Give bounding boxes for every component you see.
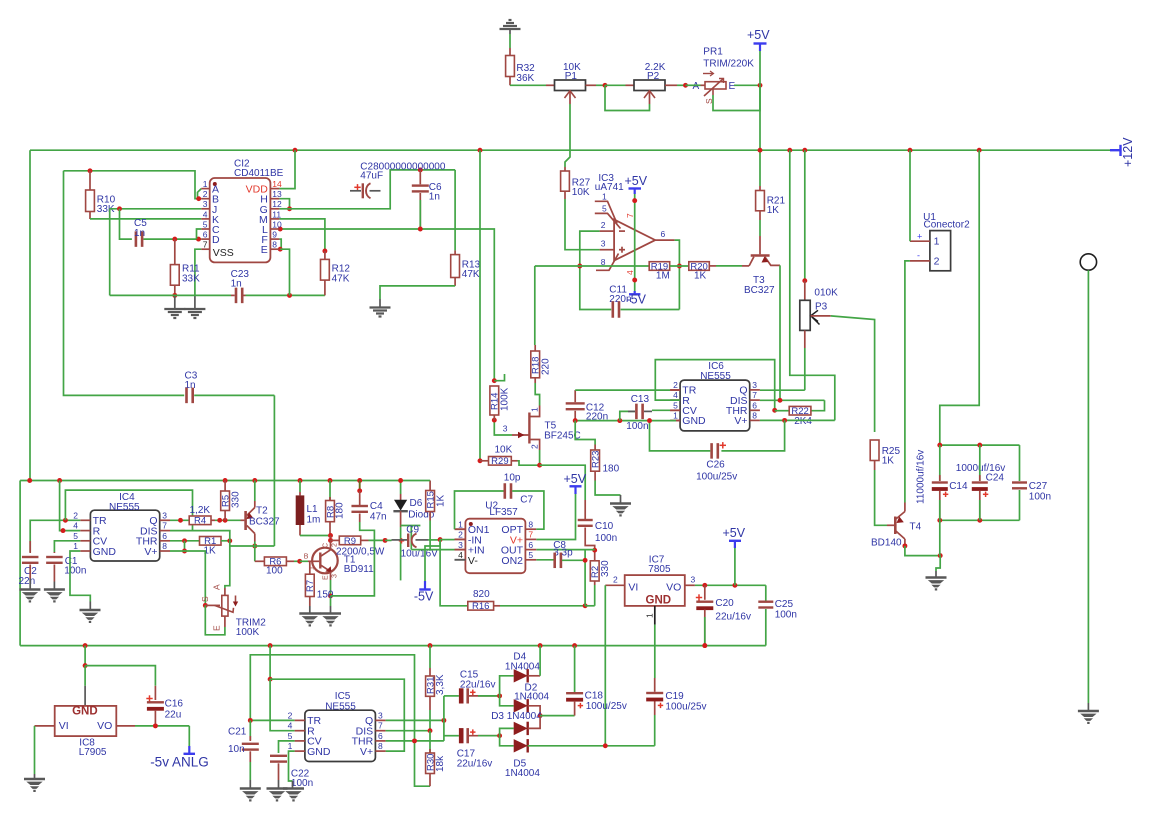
wire +5V to pin 7 [634, 194, 636, 291]
wire R32 to P1 [509, 77, 511, 86]
svg-text:L7905: L7905 [79, 747, 107, 758]
svg-text:E: E [212, 625, 222, 631]
svg-text:+5V: +5V [723, 526, 746, 540]
svg-text:180: 180 [335, 502, 346, 519]
wire C9 to U2 -IN [428, 539, 440, 541]
wire R29 to T5 source node [511, 460, 517, 462]
svg-text:1N4004: 1N4004 [514, 692, 549, 703]
svg-text:V-: V- [468, 555, 478, 567]
svg-text:100u/25v: 100u/25v [696, 472, 737, 483]
svg-text:820: 820 [473, 589, 490, 600]
svg-text:2: 2 [601, 220, 606, 230]
IC5 pin 3 Q [375, 719, 385, 721]
resistor R11 [174, 239, 176, 265]
svg-text:2: 2 [530, 444, 540, 449]
CI2 pin 13 [270, 198, 279, 200]
potentiometer P2 [634, 80, 665, 91]
node T5 source/R29 [537, 463, 542, 468]
node C6 top [418, 167, 423, 172]
resistor R31 [429, 646, 431, 668]
capacitor C7 loop [455, 491, 504, 529]
wire left column to C3 [64, 171, 185, 396]
wire IC5 Q line [386, 719, 444, 721]
svg-text:3: 3 [378, 710, 383, 720]
capacitor C19 [654, 715, 656, 746]
IC3 pin 5 stub [595, 213, 621, 228]
node THR [772, 408, 777, 413]
node -IN [438, 537, 443, 542]
svg-text:1K: 1K [694, 271, 707, 282]
wire Q riser to C15/C17 [443, 696, 445, 741]
svg-text:5: 5 [602, 204, 607, 214]
resistor R13 [454, 170, 456, 251]
svg-text:1: 1 [673, 410, 678, 420]
svg-text:D: D [212, 234, 220, 246]
wire +IN line [411, 549, 454, 551]
ground (IC5) [283, 787, 304, 790]
wire DIS loop [65, 490, 192, 530]
power -5V (IC3 pin4) [629, 293, 640, 295]
svg-text:C27: C27 [1029, 481, 1048, 492]
svg-text:220: 220 [540, 358, 551, 375]
svg-text:3: 3 [458, 540, 463, 550]
svg-text:R7: R7 [305, 580, 316, 592]
svg-text:R9: R9 [344, 536, 356, 547]
svg-text:7805: 7805 [648, 564, 671, 575]
wire -IN to -5V stem [425, 540, 440, 581]
wire IC5 GND to ground [289, 751, 295, 781]
wire C11 feedback loop [580, 231, 611, 309]
svg-text:LF357: LF357 [489, 507, 518, 518]
svg-text:5: 5 [288, 731, 293, 741]
svg-text:V+: V+ [360, 746, 373, 758]
node L1/R8 [328, 533, 333, 538]
wire pin8 down [280, 249, 289, 295]
bus junction dots [293, 148, 298, 153]
wire to P2 [605, 84, 626, 86]
IC5 pin 8 V+ [375, 750, 385, 752]
svg-text:C7: C7 [520, 495, 533, 506]
IC4 pin 3 Q [160, 519, 170, 521]
svg-text:GND: GND [307, 746, 331, 758]
node +5V/E junction [758, 83, 763, 88]
CI2 pin1 jog [198, 189, 202, 199]
svg-text:1: 1 [934, 236, 940, 248]
node R6/T1 base [297, 559, 302, 564]
IC4 pin 4 R [80, 530, 90, 532]
wire IC5 TR net loop [250, 655, 430, 786]
svg-text:4: 4 [73, 521, 78, 531]
wire C12 to IC6 TR [575, 389, 670, 391]
svg-text:C13: C13 [631, 394, 650, 405]
node R14 bottom [492, 418, 497, 423]
svg-text:Conector2: Conector2 [924, 220, 971, 231]
svg-text:1N4004: 1N4004 [505, 661, 540, 672]
svg-text:2: 2 [934, 255, 940, 267]
ground (T1) [320, 612, 341, 615]
IC4 NE555 [90, 510, 159, 561]
svg-text:L1: L1 [307, 504, 319, 515]
svg-text:3: 3 [203, 199, 208, 209]
wire R13 to ground [454, 278, 456, 286]
wire D4 cathode to rail [539, 646, 541, 676]
capacitor C10 [578, 519, 593, 521]
capacitor C1 [53, 552, 55, 553]
svg-text:4: 4 [625, 270, 635, 275]
U1 pin 2 [910, 260, 930, 262]
svg-text:150: 150 [317, 590, 334, 601]
resistor R30 [429, 731, 431, 753]
node R9 right [383, 538, 388, 543]
IC6 pin 4 R [670, 399, 680, 401]
inductor L1 [299, 481, 301, 493]
IC5 pin 1 GND [295, 750, 305, 752]
IC7 pin 2 VI [605, 584, 624, 586]
wire VI riser to D5 row [604, 585, 606, 746]
svg-text:ON2: ON2 [501, 555, 523, 567]
svg-text:T2: T2 [256, 506, 268, 517]
ground (R11) [164, 308, 185, 310]
svg-text:220n: 220n [586, 412, 608, 423]
svg-text:2: 2 [288, 710, 293, 720]
wire IC5 DIS line [386, 730, 430, 732]
capacitor C5 [135, 231, 138, 247]
capacitor C2 [29, 541, 31, 553]
trimmer PR1 [686, 84, 701, 86]
diode D6 [400, 481, 402, 495]
IC8 L7905 [55, 706, 117, 736]
CI2 pin 4 [201, 218, 209, 220]
svg-text:100K: 100K [500, 387, 511, 411]
svg-text:22u/16v: 22u/16v [457, 759, 493, 770]
node D5/IC7 VI [603, 743, 608, 748]
svg-text:2200/0,5W: 2200/0,5W [336, 547, 385, 558]
CI2 pin 7 [201, 248, 209, 250]
wire C12 node to R23 [575, 421, 595, 445]
IC5 pin 6 THR [375, 740, 385, 742]
svg-text:A: A [693, 81, 700, 92]
bottom +12V rail [20, 645, 766, 647]
U2 pin 5 ON2 [525, 559, 536, 561]
svg-text:3: 3 [332, 574, 339, 578]
svg-text:3: 3 [752, 380, 757, 390]
svg-text:100u/25v: 100u/25v [665, 702, 706, 713]
resistor R1 [200, 537, 222, 546]
node IC5 R riser [268, 677, 273, 682]
wire T2 collector to rail [254, 481, 256, 502]
resistor R8 [329, 481, 331, 501]
capacitor C12 [574, 390, 576, 402]
resistor R32 [506, 56, 515, 77]
wire R1 right riser [193, 531, 230, 541]
wire bus to C14 rail [940, 150, 979, 445]
wire P1 wiper to R27 [565, 104, 570, 167]
ground (CI2 pin7) [184, 308, 205, 310]
svg-text:GND: GND [93, 546, 117, 558]
wire P3 wiper to R25 [831, 316, 875, 432]
svg-text:1K: 1K [767, 205, 780, 216]
resistor R18 [534, 345, 536, 351]
node C26 riser [782, 418, 787, 423]
wire bus to IC6 V+ loop [790, 150, 835, 420]
svg-text:C25: C25 [775, 599, 794, 610]
svg-text:100n: 100n [595, 533, 617, 544]
wire OUT line [536, 549, 594, 551]
IC3 pin 6 output [655, 239, 674, 241]
CI2 pin 1 [201, 188, 209, 190]
svg-text:PR1: PR1 [703, 47, 723, 58]
wire IC8 VO line [116, 725, 135, 727]
svg-text:2: 2 [458, 530, 463, 540]
transistor T1 BD911 [312, 548, 338, 574]
svg-text:4: 4 [458, 550, 463, 560]
wire IC8 VI to ground [35, 725, 55, 727]
IC3 pin 8 stub [596, 254, 619, 271]
svg-text:3: 3 [162, 510, 167, 520]
svg-text:D6: D6 [410, 498, 423, 509]
node T4/C14 ground [938, 553, 943, 558]
svg-text:8: 8 [272, 240, 277, 250]
svg-text:8: 8 [752, 410, 757, 420]
node C23/pin8 [287, 293, 292, 298]
svg-text:1: 1 [602, 192, 607, 202]
capacitor C22 [270, 755, 287, 757]
capacitor C21 [249, 720, 251, 740]
resistor R23 [594, 445, 596, 451]
wire rail to IC4 R pin [60, 481, 81, 531]
ground (C22) [267, 787, 288, 790]
node TR/C21 [248, 718, 253, 723]
svg-text:VSS: VSS [213, 247, 234, 259]
node T1 emitter [328, 593, 333, 598]
node junction P1/P2 [603, 83, 608, 88]
svg-text:100K: 100K [236, 627, 260, 638]
VSS rail wire [110, 294, 231, 296]
node R10 top [88, 168, 93, 173]
svg-text:100n: 100n [626, 421, 648, 432]
svg-text:uA741: uA741 [595, 182, 624, 193]
wire to CI2 pins 1/2 [64, 171, 202, 199]
svg-text:6: 6 [661, 229, 666, 239]
node T2 emitter [252, 544, 257, 549]
svg-text:4: 4 [673, 390, 678, 400]
wire -IN to R16 rail [440, 540, 468, 606]
svg-text:NE555: NE555 [325, 702, 356, 713]
wire C18 branch [540, 715, 575, 717]
node +5V riser [732, 583, 737, 588]
svg-text:P1: P1 [565, 71, 578, 82]
wire IC6 R to THR loop [655, 360, 774, 411]
node Q/C15 [441, 718, 446, 723]
svg-text:47K: 47K [332, 273, 350, 284]
node pin12/13 [287, 206, 292, 211]
node junction P2/PR1 [683, 83, 688, 88]
capacitor C18 [574, 646, 576, 692]
node C20 bottom [702, 643, 707, 648]
wire C5 riser [120, 209, 132, 239]
IC5 pin 7 DIS [375, 730, 385, 732]
svg-text:10K: 10K [572, 187, 590, 198]
capacitor C23 [235, 288, 238, 304]
wire source node to C10 [540, 465, 586, 500]
svg-text:+5V: +5V [625, 174, 648, 188]
node pin10 [278, 227, 283, 232]
wire V+ to TRIM2 [170, 551, 205, 605]
CI2 pin 10 [270, 228, 279, 230]
resistor R10 [89, 171, 91, 190]
svg-text:1: 1 [73, 541, 78, 551]
CI2 pin 11 [270, 218, 279, 220]
svg-text:+5V: +5V [747, 28, 770, 42]
transistor T4 BD140 [894, 517, 897, 535]
IC6 pin 1 GND [670, 419, 680, 421]
capacitor C16 [146, 698, 152, 700]
node R29 left [478, 458, 483, 463]
wire C3 right riser [194, 394, 274, 396]
svg-text:3: 3 [503, 424, 508, 434]
capacitor C27 [1019, 445, 1021, 481]
U2 pin 2 -IN [455, 538, 466, 540]
transistor T2 BC327 [244, 511, 247, 530]
svg-text:1N4004: 1N4004 [505, 768, 540, 779]
IC3 pin 1 stub [595, 201, 617, 223]
svg-text:100u/25v: 100u/25v [586, 701, 627, 712]
ground (IC8 VI) [24, 778, 45, 781]
IC6 pin 3 Q [750, 389, 760, 391]
node DIS/T3 [778, 398, 783, 403]
wire pin11 to R12 [279, 219, 325, 251]
node C16 branch [83, 663, 88, 668]
svg-text:P2: P2 [647, 71, 660, 82]
svg-text:1,2K: 1,2K [190, 505, 211, 516]
svg-text:6: 6 [528, 540, 533, 550]
resistor R21 [759, 186, 761, 191]
ground (T4) [926, 576, 947, 579]
node R11 bottom [172, 293, 177, 298]
svg-text:8: 8 [378, 741, 383, 751]
svg-text:GND: GND [646, 595, 672, 607]
svg-text:22u/16v: 22u/16v [715, 612, 751, 623]
resistor R19 [649, 262, 670, 271]
svg-text:3,3K: 3,3K [435, 674, 446, 695]
svg-text:C10: C10 [595, 521, 614, 532]
trimmer TRIM2 [205, 604, 220, 606]
svg-text:E: E [323, 575, 330, 580]
node R12 top [322, 249, 327, 254]
resistor R7 [309, 561, 311, 574]
wire THR to R1 [170, 540, 200, 542]
resistor R15 [429, 481, 431, 491]
node R14 top [492, 378, 497, 383]
svg-text:11: 11 [272, 209, 281, 219]
wire pin3 down to VSS rail [109, 209, 111, 296]
potentiometer P1 [555, 80, 586, 91]
wire bus to R29 [479, 150, 481, 461]
IC4 pin 8 V+ [160, 550, 170, 552]
svg-text:C19: C19 [665, 691, 684, 702]
svg-text:+: + [917, 232, 922, 242]
ground (top, above R32) [500, 28, 521, 30]
ground (bottom right) [1078, 710, 1099, 713]
svg-text:NE555: NE555 [700, 371, 731, 382]
svg-text:1m: 1m [307, 515, 321, 526]
node D2/D3/C18 [538, 713, 543, 718]
svg-text:+12V: +12V [1121, 137, 1135, 167]
node C8 right [583, 558, 588, 563]
wire OUT riser to rail [584, 550, 586, 606]
svg-text:C: C [323, 543, 330, 548]
wire IC6 GND line [575, 420, 676, 422]
wire TRIM2 E loop [205, 605, 225, 634]
svg-text:330: 330 [230, 491, 241, 508]
node C5 riser [117, 206, 122, 211]
svg-text:1K: 1K [435, 494, 446, 507]
IC5 pin 4 R [295, 730, 305, 732]
capacitor C26 [721, 420, 784, 451]
wire pin13 jog [279, 199, 289, 209]
svg-text:B: B [304, 554, 309, 561]
wire P2 wiper loop [605, 85, 650, 110]
CI2 pin 8 [270, 248, 279, 250]
CI2 pin9 jog [279, 239, 281, 249]
svg-text:C24: C24 [986, 473, 1005, 484]
svg-text:7: 7 [378, 721, 383, 731]
svg-text:C26: C26 [706, 460, 725, 471]
svg-text:47K: 47K [462, 269, 480, 280]
U2 pin 4 V- [455, 559, 466, 561]
wire IC6 V+ line [760, 419, 835, 421]
+12V power bus [30, 149, 1110, 151]
capacitor C20 [704, 585, 706, 600]
resistor R25 [870, 440, 879, 461]
svg-text:7: 7 [752, 390, 757, 400]
svg-text:100n: 100n [1029, 492, 1051, 503]
svg-text:7: 7 [625, 213, 635, 218]
resistor R2 [590, 561, 599, 581]
U1 pin 1 [910, 240, 930, 242]
TRIM2 arrow [235, 596, 237, 604]
node R1 right [227, 538, 232, 543]
svg-text:010K: 010K [814, 288, 838, 299]
wire T1 emitter to ground [330, 580, 332, 596]
node C12 bottom [573, 418, 578, 423]
svg-text:4: 4 [203, 209, 208, 219]
wire R23 to ground [594, 471, 596, 480]
node THR riser [412, 738, 417, 743]
wire CV to C1 [54, 541, 80, 552]
svg-text:VO: VO [97, 720, 112, 732]
P1 wiper arrow [565, 91, 576, 98]
wire R25 to T4 base [874, 461, 876, 471]
svg-text:6: 6 [162, 531, 167, 541]
svg-text:7: 7 [162, 521, 167, 531]
svg-text:5: 5 [528, 550, 533, 560]
T5 gate wire [494, 420, 512, 435]
svg-text:TRIM/220K: TRIM/220K [703, 59, 754, 70]
wire D6 hook [401, 525, 421, 527]
svg-text:IC5: IC5 [335, 691, 351, 702]
resistor R20 [670, 265, 689, 267]
capacitor C25 [765, 585, 767, 601]
wire +5V to U2 V+ [536, 494, 575, 540]
wire P2 right [665, 84, 677, 86]
svg-text:2K4: 2K4 [794, 416, 812, 427]
svg-text:BC327: BC327 [249, 517, 280, 528]
IC5 pin 5 CV [295, 740, 305, 742]
CI2 pin 14 [270, 188, 279, 190]
capacitor C4 [359, 481, 361, 491]
wire PR1 E to +5V node [734, 84, 760, 86]
